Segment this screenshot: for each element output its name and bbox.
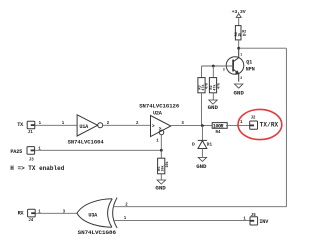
wire right bus vertical — [285, 48, 287, 207]
node junction enable — [160, 149, 163, 152]
xor gate U3A (mirrored) — [77, 198, 117, 236]
svg-text:TX/RX: TX/RX — [260, 122, 279, 129]
svg-text:TX: TX — [17, 122, 24, 128]
wire junction to R5 — [160, 150, 162, 158]
svg-text:GND: GND — [196, 163, 207, 170]
node junction collector — [237, 47, 240, 50]
wire R1 bottom to junction — [238, 40, 240, 48]
resistor R5 — [158, 158, 171, 174]
wire RX to U3A output — [35, 212, 77, 214]
buffer U2A — [139, 103, 180, 137]
wire U2A enable down — [160, 135, 162, 151]
svg-text:J5: J5 — [251, 214, 256, 218]
svg-text:100R: 100R — [213, 124, 224, 130]
connector J4 RX — [18, 209, 42, 223]
wire R5 to ground — [160, 174, 162, 180]
node junction base — [212, 65, 215, 68]
wire TX to U1A — [35, 124, 77, 126]
resistor R1 — [235, 26, 246, 40]
wire U3A input pin2 from right bus — [113, 206, 286, 208]
svg-text:1k: 1k — [242, 33, 246, 38]
connector J1 TX — [17, 121, 41, 135]
svg-text:1: 1 — [38, 210, 41, 214]
svg-text:INV: INV — [259, 219, 269, 225]
svg-text:Q1: Q1 — [246, 59, 252, 65]
diode D1 — [192, 140, 212, 148]
svg-text:J3: J3 — [29, 159, 34, 163]
svg-text:47k: 47k — [217, 83, 222, 89]
ground (under R2) — [208, 100, 219, 111]
resistor R3 (left of pair) — [198, 78, 209, 93]
svg-text:2: 2 — [240, 76, 242, 80]
svg-text:U2A: U2A — [153, 110, 163, 116]
svg-text:GND: GND — [234, 89, 245, 96]
svg-text:3: 3 — [223, 68, 225, 72]
connector J5 INV — [250, 214, 269, 225]
wire base — [202, 65, 234, 67]
svg-text:SN74LVC1G04: SN74LVC1G04 — [68, 138, 105, 145]
svg-text:RX: RX — [18, 211, 25, 217]
wire diode stem — [201, 126, 203, 141]
svg-text:NPN: NPN — [246, 67, 255, 73]
wire R2 bottom to ground — [212, 93, 214, 100]
svg-text:1: 1 — [240, 52, 242, 56]
svg-text:10k: 10k — [161, 165, 166, 171]
svg-text:U1A: U1A — [79, 124, 89, 130]
wire U2A out — [171, 125, 212, 127]
resistor R2 (right of pair) — [209, 78, 221, 93]
svg-text:H => TX enabled: H => TX enabled — [10, 165, 64, 172]
svg-text:SN74LVC1G86: SN74LVC1G86 — [78, 229, 117, 236]
svg-text:10k: 10k — [165, 161, 170, 167]
wire R4 to J2 — [226, 125, 250, 127]
svg-text:1: 1 — [156, 140, 159, 144]
svg-text:J2: J2 — [251, 117, 256, 121]
node junction at U2A output — [201, 124, 204, 127]
svg-text:U3A: U3A — [88, 212, 98, 218]
ground (under R5) — [155, 180, 166, 192]
svg-text:SN74LVC1G126: SN74LVC1G126 — [139, 103, 180, 110]
svg-text:GND: GND — [208, 104, 219, 111]
ground (under D1) — [196, 157, 207, 170]
svg-text:1: 1 — [38, 148, 41, 152]
+3.3V power symbol — [232, 9, 246, 26]
svg-text:GND: GND — [155, 185, 166, 192]
svg-text:3: 3 — [63, 210, 66, 214]
wire R3 bottom down to output line — [201, 93, 203, 126]
annotation red ellipse around J2 — [238, 109, 282, 139]
wire junction to right bus (top) — [239, 47, 287, 49]
inverter U1A — [68, 115, 105, 146]
svg-text:D1: D1 — [207, 142, 213, 148]
svg-text:PA25: PA25 — [10, 149, 22, 155]
transistor Q1 — [223, 48, 255, 81]
svg-text:J1: J1 — [28, 131, 33, 135]
svg-text:47k: 47k — [204, 83, 209, 89]
svg-text:J4: J4 — [28, 219, 33, 223]
wire diode to ground — [201, 149, 203, 158]
resistor R4 — [212, 123, 227, 135]
wire PA25 to enable junction — [35, 149, 162, 151]
wire U3A input pin1 from INV — [113, 219, 250, 221]
svg-text:D: D — [192, 142, 195, 148]
svg-text:1: 1 — [240, 121, 243, 125]
wire base junction down to R3 — [201, 66, 203, 78]
connector J2 TX/RX — [250, 117, 279, 130]
connector J3 PA25 — [10, 147, 41, 163]
wire down to R2 — [212, 66, 214, 78]
wire U1A out to U2A in — [103, 124, 151, 126]
ground (under Q1 emitter) — [234, 84, 245, 96]
svg-text:R4: R4 — [216, 131, 221, 135]
